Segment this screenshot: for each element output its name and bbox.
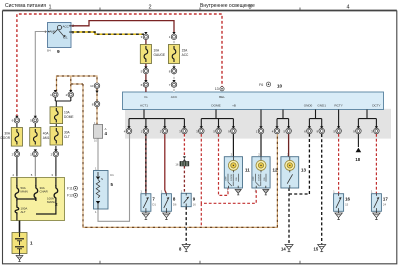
connector pins at bus bar top: [144, 80, 147, 83]
wire: red/white dashed to door switch 9 through connector: [184, 134, 186, 245]
svg-text:17: 17: [383, 197, 388, 202]
svg-text:18: 18: [355, 157, 360, 162]
courtesy switch 17: [371, 194, 381, 212]
svg-text:13: 13: [301, 168, 306, 173]
wire: connector pins 1,2 rail into 10A DOME fuse: [55, 97, 71, 107]
fuse 40A AM1: [30, 128, 41, 147]
svg-text:10A: 10A: [154, 49, 161, 53]
svg-text:10: 10: [90, 84, 94, 88]
svg-text:ON: ON: [236, 177, 238, 181]
wire: dark red to door switch 8: [165, 134, 167, 194]
connector pins above fuses 1,2: [144, 32, 147, 35]
svg-text:D6: D6: [173, 203, 177, 207]
connector box 4: [94, 125, 103, 139]
wire: maroon link fuse GAUGE down to bus bar IG: [145, 39, 147, 92]
wire: grey from connector 4 to cigarette lighter and loop to junction pin 4: [98, 134, 130, 221]
fuse 10A GAUGE: [140, 45, 151, 64]
svg-text:12: 12: [273, 168, 278, 173]
svg-text:RCTY: RCTY: [334, 104, 342, 108]
ground 14: [285, 245, 293, 252]
fuse 15A ACC: [168, 45, 179, 64]
svg-text:ACC: ACC: [171, 95, 178, 99]
svg-text:IG: IG: [144, 95, 148, 99]
fusible link block 2: [11, 178, 65, 221]
wire: black dashed door switch 9 to ground 8: [185, 207, 187, 245]
connector pins below fuses 1,2: [144, 66, 147, 69]
svg-text:C1: C1: [110, 173, 114, 177]
svg-text:9: 9: [57, 49, 60, 55]
svg-text:15: 15: [345, 203, 349, 207]
svg-text:15A: 15A: [182, 49, 189, 53]
svg-text:B4: B4: [47, 49, 51, 53]
svg-text:Система питания: Система питания: [5, 3, 46, 9]
svg-text:F11: F11: [67, 187, 73, 191]
ground 8: [182, 245, 190, 252]
svg-text:DOME: DOME: [211, 104, 220, 108]
svg-text:CHAR: CHAR: [40, 190, 48, 194]
svg-text:+B: +B: [232, 104, 236, 108]
pin 13 BEL: [220, 87, 224, 91]
svg-text:MAIN: MAIN: [21, 190, 28, 194]
ground under lamp 12: [263, 190, 269, 195]
battery 1: [19, 221, 21, 233]
wire: maroon feed to luggage lamp 13: [288, 134, 290, 157]
wire: B+ red/white dashed from battery feed to BEL pin 13: [17, 14, 222, 117]
svg-text:16: 16: [193, 202, 197, 206]
wire: red dashed DOME to lamp 11 low pin: [219, 134, 229, 195]
svg-text:14: 14: [281, 247, 286, 252]
svg-text:OFF: OFF: [253, 176, 255, 181]
ground below battery: [19, 254, 21, 256]
svg-text:DOOR: DOOR: [231, 174, 233, 181]
svg-text:ACT1: ACT1: [140, 104, 148, 108]
svg-text:16: 16: [175, 163, 179, 167]
svg-text:GND1: GND1: [317, 104, 326, 108]
connector arrow 18: [356, 148, 362, 153]
svg-text:13: 13: [215, 87, 219, 91]
svg-text:F6: F6: [259, 83, 263, 87]
wire: grey link fuse ACC down to bus bar ACC: [173, 39, 175, 92]
wire: black feed to dome lamp 11: [232, 134, 234, 157]
wire: maroon/black to door switch 7: [145, 134, 147, 194]
dome lamp 12: [252, 157, 270, 188]
svg-text:DOOR: DOOR: [0, 136, 10, 140]
svg-text:2: 2: [72, 31, 74, 35]
svg-text:2: 2: [55, 202, 58, 207]
svg-text:10: 10: [277, 84, 283, 89]
connector pins column x97: [94, 83, 100, 89]
ground 15: [318, 245, 326, 252]
svg-text:ALT: ALT: [21, 210, 26, 214]
svg-text:OFF: OFF: [226, 176, 228, 181]
svg-text:F12: F12: [67, 194, 73, 198]
svg-text:D1: D1: [152, 203, 156, 207]
wire: red dashed DOME outer to lamp 12 low pin: [201, 134, 256, 227]
wire: black feed to dome lamp 12: [260, 134, 262, 157]
svg-text:DOME: DOME: [64, 115, 74, 119]
wire: AM1 grey from ignition switch down to 40A AM1 fuse: [35, 32, 47, 118]
svg-text:2: 2: [148, 5, 151, 11]
wire: 10A DOME to 30A CLT link: [55, 124, 57, 127]
wire: black dashed lamp 13 to ground 14 and GND0: [289, 134, 309, 245]
svg-text:DOOR: DOOR: [258, 174, 260, 181]
wire: IG yellow/black dashed from ignition switch to fuse 10A GAUGE: [71, 32, 144, 34]
wire: black dashed GND1 to ground 15: [321, 134, 323, 245]
svg-text:AM1: AM1: [43, 136, 50, 140]
junction block grey zone: [125, 109, 391, 139]
grid numbers: [48, 5, 349, 11]
svg-text:ACC: ACC: [63, 25, 70, 29]
luggage lamp 13: [281, 157, 299, 188]
wire: stub to connector arrow 18: [357, 134, 359, 147]
svg-text:4: 4: [346, 5, 349, 11]
svg-text:1: 1: [48, 5, 51, 11]
courtesy switch 16: [334, 194, 344, 212]
svg-text:11: 11: [245, 168, 250, 173]
cigarette lighter 5: [94, 171, 109, 210]
svg-text:3: 3: [248, 5, 251, 11]
door switch 9: [181, 193, 191, 206]
wire: brown tail lamp circuit loop: [57, 76, 98, 92]
svg-text:1: 1: [45, 30, 47, 34]
svg-text:1: 1: [30, 241, 33, 246]
connector pins below left fuses: [15, 149, 18, 152]
svg-text:CLT: CLT: [64, 135, 70, 139]
svg-text:DCTY: DCTY: [372, 104, 380, 108]
wire: bus bar output stubs and rails: [129, 110, 376, 128]
svg-text:BEL: BEL: [219, 95, 225, 99]
wire: red dashed RCTY to courtesy switch 16: [338, 134, 340, 194]
wire: red dashed DCTY to courtesy switch 17: [375, 134, 377, 194]
svg-text:Внутреннее освещение: Внутреннее освещение: [200, 3, 255, 9]
door switch 7: [141, 194, 151, 212]
fuse 30A CLT: [50, 127, 63, 145]
wire: ACC maroon from ignition switch to fuse 15A ACC: [71, 21, 174, 34]
svg-text:GAUGE: GAUGE: [154, 53, 166, 57]
svg-text:15: 15: [314, 247, 319, 252]
ground under lamp 11: [235, 190, 241, 195]
connector pins above left fuses: [15, 116, 18, 119]
ignition switch 9: [48, 23, 72, 48]
fuse 30A DOOR: [11, 128, 22, 147]
svg-text:S: S: [101, 177, 103, 181]
fuse 10A DOME: [50, 107, 63, 124]
svg-text:24: 24: [383, 203, 387, 207]
junction block bus bar 10: [123, 92, 384, 110]
svg-text:2: 2: [72, 24, 74, 28]
dome lamp 11: [224, 157, 242, 188]
wire: left column stubs into fusible link block: [17, 123, 56, 176]
svg-text:ON: ON: [264, 177, 266, 181]
svg-text:16: 16: [345, 197, 350, 202]
svg-text:ACC: ACC: [182, 53, 189, 57]
inline connector 18 on door switch 9 wire: [183, 156, 186, 159]
door switch 8: [161, 194, 171, 212]
connector pins 1,2 near ignition: [54, 90, 57, 93]
svg-text:GND0: GND0: [304, 104, 313, 108]
junction block bottom pin row: [127, 126, 130, 129]
